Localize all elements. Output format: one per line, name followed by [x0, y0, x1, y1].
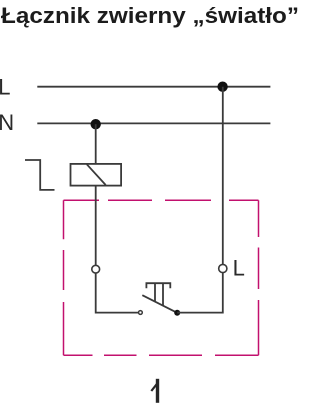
dashed enclosure border (magenta) — [64, 200, 259, 355]
wire left terminal to switch fixed contact — [96, 273, 139, 312]
impulse relay K1 (box with diagonal) — [71, 164, 122, 186]
pulse/step control signal symbol — [25, 160, 55, 190]
left terminal (control input) — [92, 265, 100, 273]
svg-text:L: L — [0, 75, 10, 100]
switch pivot joint — [174, 310, 180, 316]
junction on L line — [217, 82, 227, 92]
right side dashes — [258, 200, 260, 355]
wire pivot to L terminal — [177, 273, 223, 313]
wire L terminal up to L busbar junction — [222, 87, 224, 265]
wire relay to left terminal — [95, 186, 97, 266]
node N (neutral busbar) — [37, 122, 270, 124]
switch lever (normally open) — [142, 295, 177, 313]
svg-text:Łącznik zwierny „światło”: Łącznik zwierny „światło” — [1, 3, 299, 28]
top side dashes — [64, 199, 259, 201]
node L (phase busbar) — [37, 86, 270, 88]
svg-text:L: L — [233, 255, 245, 280]
junction on N line — [91, 119, 101, 129]
wire N junction to relay coil — [95, 124, 97, 164]
caption 1 — [151, 379, 157, 403]
terminal L (phase input of switch) — [219, 264, 227, 272]
switch fixed contact (open) — [139, 311, 143, 315]
push-button actuator — [146, 283, 170, 288]
svg-text:N: N — [0, 110, 14, 135]
left side dashes — [63, 200, 65, 355]
bottom side dashes — [64, 354, 259, 356]
